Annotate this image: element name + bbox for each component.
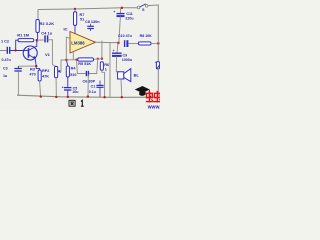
wire C2 to base bbox=[10, 50, 27, 52]
watermark text chongchong bbox=[146, 91, 160, 103]
wire emitter down bbox=[35, 59, 39, 70]
node R5 right bbox=[97, 58, 99, 60]
speaker BL bbox=[118, 69, 131, 82]
wire C6 loop right bbox=[89, 59, 98, 74]
svg-text:470: 470 bbox=[29, 72, 35, 76]
wire R8 to right edge bbox=[151, 42, 158, 44]
node ground speaker bbox=[121, 96, 123, 98]
wire R4 top bbox=[66, 60, 67, 66]
svg-text:+: + bbox=[113, 49, 115, 53]
op-amp U1 LM386 bbox=[70, 32, 96, 54]
svg-text:0.1u: 0.1u bbox=[89, 90, 96, 94]
svg-text:RP2: RP2 bbox=[42, 69, 49, 73]
svg-text:C1: C1 bbox=[91, 85, 96, 89]
wire vertical x110 output to ground bbox=[109, 43, 111, 97]
svg-text:C4 1u: C4 1u bbox=[41, 30, 52, 35]
wire C6 loop left bbox=[77, 60, 86, 74]
wire bottom ground rail bbox=[17, 95, 158, 97]
watermark logo mortarboard bbox=[135, 86, 151, 98]
capacitor C11 bbox=[117, 14, 125, 17]
capacitor C4 bbox=[45, 35, 48, 42]
svg-text:+: + bbox=[62, 85, 64, 89]
node output junction bbox=[117, 42, 120, 45]
node R4 top bbox=[65, 59, 67, 61]
svg-text:0.47u: 0.47u bbox=[2, 58, 11, 62]
resistor R2 bbox=[36, 20, 39, 33]
background bbox=[0, 0, 160, 110]
potentiometer wiper arrow bbox=[59, 71, 61, 72]
svg-text:220u: 220u bbox=[125, 17, 133, 21]
wire C3 branch top bbox=[18, 65, 36, 67]
svg-text:IC: IC bbox=[64, 27, 68, 32]
resistor R4 bbox=[66, 66, 69, 77]
wire C9 to speaker bbox=[116, 56, 120, 72]
node feedback top bbox=[101, 58, 103, 60]
svg-text:R5 51K: R5 51K bbox=[78, 62, 91, 66]
capacitor C9 bbox=[112, 53, 122, 56]
capacitor C1 bbox=[96, 81, 103, 98]
node collector junction bbox=[36, 39, 39, 42]
wire R2 bottom bbox=[37, 33, 39, 40]
wire R3 bottom bbox=[40, 81, 41, 97]
capacitor C3 bbox=[14, 69, 21, 72]
node ground R6 bbox=[103, 96, 105, 98]
capacitor C5 bbox=[64, 88, 71, 90]
svg-text:WWW.: WWW. bbox=[148, 105, 160, 110]
wire C11 down to output node bbox=[119, 17, 121, 43]
wire R6 bottom to ground bbox=[102, 70, 105, 97]
svg-text:LM386: LM386 bbox=[71, 41, 85, 46]
wire C3 top bbox=[17, 66, 19, 68]
svg-text:C11: C11 bbox=[126, 12, 132, 16]
wire C6 to ground bbox=[87, 74, 89, 96]
resistor R7 bbox=[74, 12, 77, 26]
wire mic input bbox=[0, 50, 7, 52]
svg-text:C9: C9 bbox=[123, 53, 128, 57]
wire rail to C11 bbox=[121, 8, 122, 13]
svg-text:V1: V1 bbox=[45, 52, 51, 57]
wire R7 top junction bbox=[74, 8, 76, 10]
svg-text:1000u: 1000u bbox=[122, 58, 132, 62]
svg-text:R7: R7 bbox=[80, 13, 85, 17]
capacitor C10 bbox=[125, 40, 128, 47]
svg-text:C8 130n: C8 130n bbox=[85, 20, 100, 24]
wire C3 bottom to rail corner bbox=[17, 71, 18, 95]
svg-text:47K: 47K bbox=[42, 75, 49, 79]
wire junction to C4 bbox=[37, 39, 44, 41]
wire pin3 riser bbox=[66, 37, 70, 60]
node emitter junction bbox=[35, 65, 37, 67]
svg-text:R2 3.2K: R2 3.2K bbox=[40, 21, 55, 26]
wire collector up bbox=[35, 40, 38, 46]
node ground R3 bbox=[40, 95, 42, 97]
wire switch to right edge bbox=[148, 5, 158, 62]
wire R4 bottom to C5 bbox=[67, 77, 69, 87]
wire output node down to C9 bbox=[117, 43, 118, 53]
node rail C11 bbox=[121, 7, 124, 10]
svg-text:BL: BL bbox=[134, 73, 140, 78]
wire wiper up to row bbox=[61, 60, 78, 72]
capacitor C2 bbox=[7, 47, 9, 54]
wire speaker to ground bbox=[120, 79, 123, 97]
svg-text:R8 10K: R8 10K bbox=[140, 34, 153, 38]
resistor R8 bbox=[138, 42, 151, 45]
wire feedback drop x102 bbox=[101, 41, 103, 59]
switch S bbox=[137, 5, 148, 9]
wire top rail bbox=[38, 8, 137, 10]
wire C4 to pot top bbox=[48, 40, 56, 67]
wire R5 row bbox=[94, 58, 102, 61]
svg-text:510: 510 bbox=[70, 73, 76, 77]
potentiometer RP1 body bbox=[55, 66, 58, 77]
wire rail to R7 bbox=[74, 9, 76, 12]
node ground C5 bbox=[67, 96, 69, 98]
resistor R5 bbox=[78, 58, 94, 61]
resistor R1 bbox=[18, 39, 34, 42]
capacitor C8 bbox=[87, 24, 94, 31]
node R5 left bbox=[75, 59, 77, 61]
svg-text:51: 51 bbox=[80, 18, 84, 22]
resistor R6 bbox=[100, 62, 103, 71]
svg-text:R1 1M: R1 1M bbox=[17, 32, 29, 37]
wire R7 bottom to IC bbox=[74, 25, 76, 33]
resistor R3 bbox=[38, 70, 41, 81]
node base bbox=[14, 49, 16, 51]
wire C10 to R8 bbox=[128, 43, 138, 45]
wire left drop from rail to R2 bbox=[37, 10, 39, 20]
node ground pot bbox=[55, 96, 57, 98]
svg-text:C3: C3 bbox=[3, 67, 8, 71]
capacitor C6 bbox=[86, 71, 88, 76]
wire C5 bottom bbox=[67, 90, 69, 97]
transistor V1 bbox=[23, 46, 37, 60]
svg-text:1 C2: 1 C2 bbox=[1, 40, 9, 44]
wire R1 left lead down to base node bbox=[16, 40, 18, 50]
svg-text:1u: 1u bbox=[3, 74, 7, 78]
battery GB bbox=[155, 62, 160, 69]
wire output bbox=[96, 41, 120, 44]
node right edge R8 bbox=[157, 42, 160, 45]
svg-text:1: 1 bbox=[105, 67, 107, 71]
wire pot bottom to ground bbox=[55, 78, 57, 97]
svg-text:C10 47u: C10 47u bbox=[118, 34, 132, 38]
node ground C6 bbox=[87, 95, 89, 97]
svg-text:C6 30P: C6 30P bbox=[83, 79, 96, 83]
svg-text:10u: 10u bbox=[72, 90, 78, 94]
caption 图 1 bbox=[69, 100, 84, 106]
svg-text:+: + bbox=[113, 10, 115, 14]
wire battery to ground rail bbox=[157, 68, 159, 98]
svg-text:R3: R3 bbox=[30, 67, 35, 71]
